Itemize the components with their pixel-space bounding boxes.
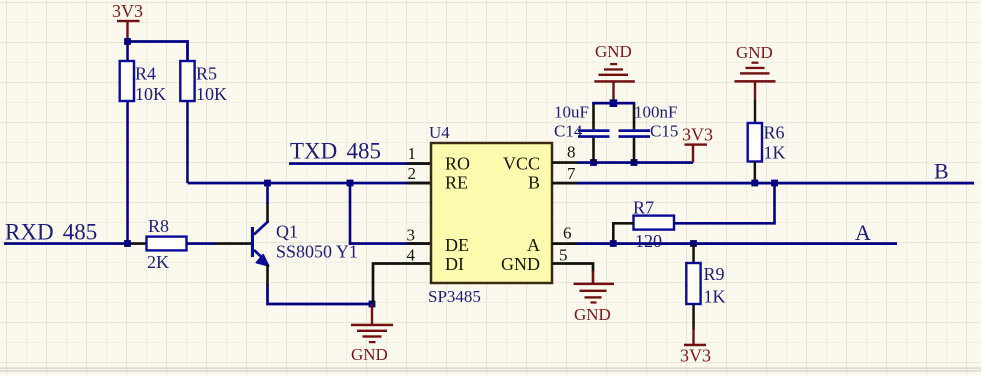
svg-text:100nF: 100nF <box>634 103 677 122</box>
svg-text:RE: RE <box>445 173 468 193</box>
svg-text:1: 1 <box>408 144 417 163</box>
svg-text:B: B <box>934 159 949 184</box>
svg-text:DI: DI <box>445 254 464 274</box>
junction B/R7 <box>771 180 778 187</box>
svg-text:B: B <box>528 173 540 193</box>
svg-text:GND: GND <box>351 345 388 364</box>
wire R8 to Q1 base <box>187 242 216 245</box>
wire pin 2 stub <box>407 182 431 185</box>
svg-text:1K: 1K <box>764 143 786 163</box>
wire DE branch vertical <box>349 183 352 244</box>
ground GND bottom middle <box>351 304 393 364</box>
capacitor C14 <box>554 103 610 163</box>
transistor Q1 <box>251 221 358 266</box>
svg-text:120: 120 <box>635 231 662 251</box>
pin 7 B <box>528 164 576 193</box>
svg-text:4: 4 <box>407 246 416 265</box>
junction A/R9 <box>690 240 697 247</box>
wire pin 4 DI to GND junction <box>373 264 431 305</box>
svg-text:R7: R7 <box>633 198 654 218</box>
svg-text:10K: 10K <box>135 84 166 104</box>
svg-text:TXD 485: TXD 485 <box>290 139 381 164</box>
power 3V3 top <box>112 1 143 42</box>
svg-text:GND: GND <box>736 43 773 62</box>
wire R5 bottom to RE net <box>186 101 189 183</box>
wire Q1 emitter pin <box>266 264 269 285</box>
svg-text:2K: 2K <box>147 252 169 272</box>
junction B/R6 <box>751 180 758 187</box>
svg-text:RO: RO <box>445 154 470 174</box>
svg-text:6: 6 <box>563 224 572 243</box>
svg-text:R8: R8 <box>148 216 169 236</box>
junction RE/collector <box>264 180 271 187</box>
junction 3V3/R4/R5 <box>124 38 131 45</box>
svg-text:10uF: 10uF <box>554 103 589 122</box>
pin 6 A <box>527 224 572 256</box>
svg-text:RXD 485: RXD 485 <box>5 220 97 245</box>
junction RE/DE branch <box>347 180 354 187</box>
svg-text:5: 5 <box>559 246 568 265</box>
svg-text:SP3485: SP3485 <box>428 287 481 306</box>
wire R9 bottom lead <box>692 304 695 330</box>
resistor R6 <box>748 123 786 163</box>
svg-text:C14: C14 <box>554 122 583 141</box>
pin 2 RE <box>408 164 469 193</box>
power 3V3 bottom <box>680 344 711 366</box>
capacitor C15 <box>619 103 679 163</box>
ground GND above R6 <box>735 43 776 100</box>
junction A/R7 <box>610 240 617 247</box>
svg-text:C15: C15 <box>650 122 678 141</box>
wire DE branch horizontal to pin 3 <box>349 242 431 245</box>
resistor R9 <box>686 263 725 307</box>
ground GND at pin 5 <box>574 283 615 324</box>
wire R4 top lead <box>126 42 129 62</box>
svg-text:Q1: Q1 <box>276 222 298 242</box>
svg-text:R6: R6 <box>764 123 785 143</box>
svg-text:VCC: VCC <box>503 154 540 174</box>
svg-text:3V3: 3V3 <box>680 346 711 366</box>
pin 8 VCC <box>503 143 576 174</box>
svg-text:7: 7 <box>567 164 576 183</box>
svg-text:3V3: 3V3 <box>682 125 713 145</box>
svg-text:3V3: 3V3 <box>112 1 143 21</box>
wire pin 5 to GND <box>552 264 593 273</box>
junction RXD/R4 <box>124 240 131 247</box>
svg-text:GND: GND <box>595 42 632 61</box>
wire TXD net to pin 1 <box>289 162 431 165</box>
pin 3 DE <box>407 226 470 256</box>
resistor R4 <box>120 61 166 104</box>
svg-text:R9: R9 <box>704 264 725 284</box>
wire Q1 collector to RE net <box>266 183 269 204</box>
svg-text:3: 3 <box>407 226 416 245</box>
svg-text:DE: DE <box>445 235 469 255</box>
svg-text:1K: 1K <box>704 287 726 307</box>
wire pin 1 stub <box>407 162 431 165</box>
pin 5 GND <box>501 246 568 274</box>
svg-text:10K: 10K <box>196 84 227 104</box>
wire Q1 collector pin <box>266 203 269 222</box>
svg-text:GND: GND <box>501 254 540 274</box>
resistor R5 <box>180 61 227 104</box>
wire RE net horizontal <box>188 182 432 185</box>
svg-text:2: 2 <box>408 164 417 183</box>
svg-text:8: 8 <box>567 143 576 162</box>
IC U4 SP3485 <box>428 123 552 306</box>
junction cap top / GND <box>610 99 618 107</box>
svg-text:R5: R5 <box>196 64 217 84</box>
junction emitter/DI/GND <box>369 301 376 308</box>
sheet bottom border <box>0 368 981 372</box>
svg-text:SS8050 Y1: SS8050 Y1 <box>276 242 358 262</box>
wire B net <box>552 182 577 185</box>
wire A net <box>552 242 577 245</box>
wire Q1 emitter down and right to GND <box>268 284 373 304</box>
power 3V3 at VCC <box>682 125 713 163</box>
pin 4 DI <box>407 246 465 274</box>
junction C15 bottom <box>631 159 638 166</box>
wire R6 bottom to B net <box>754 162 757 184</box>
svg-text:A: A <box>527 235 540 255</box>
svg-text:GND: GND <box>574 305 611 324</box>
resistor R8 <box>147 216 187 272</box>
pin 1 RO <box>408 144 471 174</box>
wire R7 left lead to A net <box>613 223 633 243</box>
junction C14 bottom <box>590 159 597 166</box>
wire R4 bottom to RXD net <box>126 101 129 244</box>
wire R7 right lead to B net <box>674 183 775 223</box>
ground GND above caps <box>594 42 635 103</box>
svg-text:A: A <box>855 220 871 245</box>
wire pin 3 stub <box>407 242 431 245</box>
wire RXD net <box>4 242 128 245</box>
svg-text:U4: U4 <box>429 123 450 142</box>
wire 3V3 to R5 top <box>128 42 188 62</box>
wire GND to R6 top <box>754 100 756 123</box>
svg-text:R4: R4 <box>135 64 156 84</box>
wire cap tops <box>592 102 635 105</box>
resistor R7 <box>633 198 674 252</box>
wire pin 8 VCC net <box>552 161 577 164</box>
wire R9 top lead <box>692 244 695 264</box>
